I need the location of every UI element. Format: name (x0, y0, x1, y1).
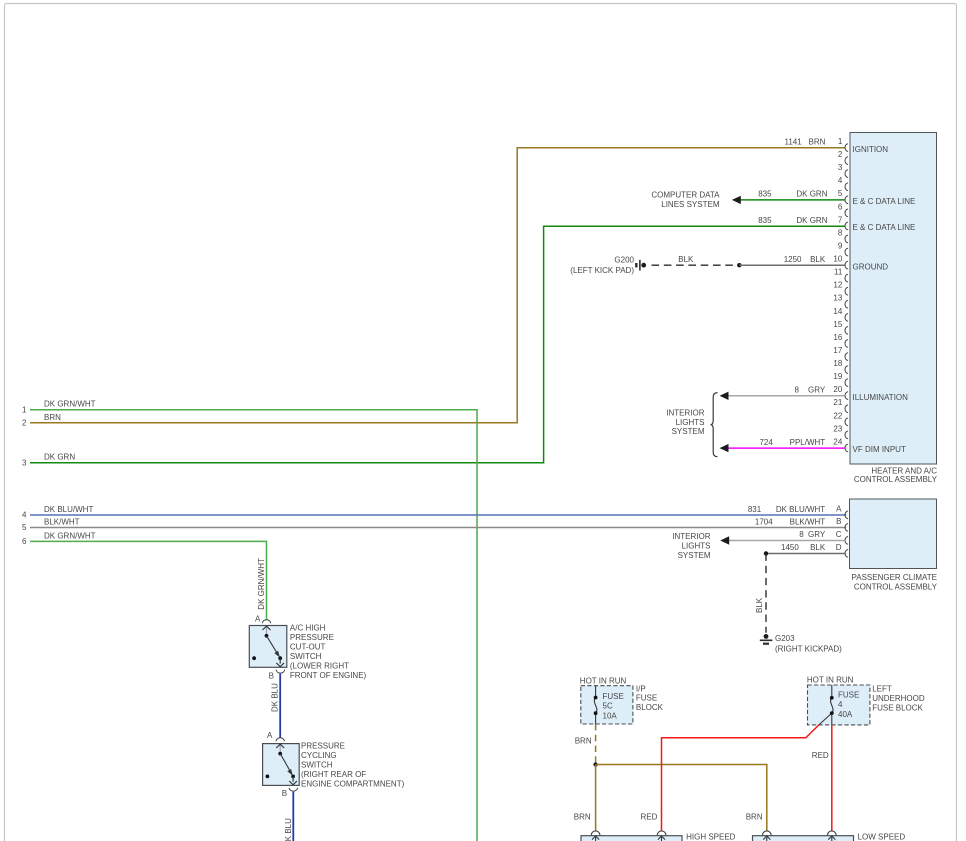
svg-text:CUT-OUT: CUT-OUT (290, 643, 326, 652)
svg-text:FUSE: FUSE (838, 690, 859, 699)
svg-text:SWITCH: SWITCH (290, 652, 322, 661)
svg-text:LEFT: LEFT (872, 685, 892, 694)
contact dots (265, 634, 269, 638)
wire 1704 BLK/WHT : left stub 5 to U2 pin B (30, 527, 846, 529)
down arrow to pin B (279, 658, 281, 663)
wire 724 PPL/WHT : U1 pin 24 to interior lights arrow (727, 447, 845, 449)
svg-text:I/P: I/P (636, 684, 646, 693)
wire 1141 BRN : left stub 2 to U1 pin 1 (30, 148, 845, 423)
connector U1 HEATER AND A/C CONTROL ASSEMBLY box (850, 133, 938, 484)
svg-text:LIGHTS: LIGHTS (682, 542, 711, 551)
svg-text:RED: RED (812, 751, 829, 760)
svg-text:PPL/WHT: PPL/WHT (790, 438, 826, 447)
wire RED : fuse F2 to HIGH SPEED relay (662, 725, 819, 831)
svg-text:11: 11 (834, 268, 843, 277)
svg-text:PRESSURE: PRESSURE (290, 633, 334, 642)
svg-text:INTERIOR: INTERIOR (672, 532, 710, 541)
svg-text:A: A (836, 504, 842, 513)
svg-text:831: 831 (748, 505, 762, 514)
up arrow (266, 627, 268, 636)
wire BLK dashed : junction down to G203 (765, 554, 767, 633)
down arrow to pin B (292, 776, 294, 781)
svg-text:8: 8 (799, 530, 804, 539)
svg-text:FUSE BLOCK: FUSE BLOCK (872, 703, 923, 712)
svg-text:BLK: BLK (810, 543, 826, 552)
svg-text:BLK: BLK (810, 255, 826, 264)
junction dot BRN (593, 762, 597, 766)
pin A arc (276, 738, 284, 742)
svg-text:HOT IN RUN: HOT IN RUN (580, 676, 627, 685)
svg-text:7: 7 (838, 215, 843, 224)
svg-text:3: 3 (838, 163, 843, 172)
svg-text:8: 8 (794, 386, 799, 395)
svg-text:ENGINE COMPARTMNENT): ENGINE COMPARTMNENT) (301, 780, 405, 789)
svg-text:40A: 40A (838, 710, 853, 719)
svg-text:GRY: GRY (808, 386, 826, 395)
svg-text:BRN: BRN (575, 736, 592, 745)
movable contact diagonal with arrowhead (267, 636, 279, 656)
svg-text:(RIGHT KICKPAD): (RIGHT KICKPAD) (775, 645, 842, 654)
svg-text:15: 15 (833, 320, 842, 329)
svg-text:BLK: BLK (678, 255, 694, 264)
svg-text:IGNITION: IGNITION (853, 145, 889, 154)
svg-text:HIGH SPEED: HIGH SPEED (686, 833, 736, 841)
svg-text:INTERIOR: INTERIOR (666, 408, 704, 417)
svg-text:1141: 1141 (784, 137, 802, 146)
svg-text:RED: RED (641, 813, 658, 822)
svg-text:9: 9 (838, 242, 843, 251)
svg-text:1: 1 (22, 405, 27, 414)
svg-text:5: 5 (22, 523, 27, 532)
svg-text:5: 5 (838, 189, 843, 198)
ground G203 symbol (760, 634, 773, 644)
svg-text:DK GRN: DK GRN (44, 453, 75, 462)
svg-text:BRN: BRN (809, 137, 826, 146)
svg-text:CONTROL ASSEMBLY: CONTROL ASSEMBLY (854, 475, 938, 484)
wire 835 DK GRN : U1 pin 5 to computer data lines arrow (740, 199, 845, 201)
svg-text:DK BLU: DK BLU (284, 818, 293, 841)
svg-text:18: 18 (833, 359, 842, 368)
wire BLK dashed : G200 to junction (647, 264, 739, 266)
svg-text:GRY: GRY (808, 530, 826, 539)
svg-text:3: 3 (22, 458, 27, 467)
svg-text:D: D (836, 543, 842, 552)
svg-text:SYSTEM: SYSTEM (678, 551, 711, 560)
svg-text:5C: 5C (603, 702, 613, 711)
svg-text:VF DIM INPUT: VF DIM INPUT (853, 445, 906, 454)
svg-text:COMPUTER DATA: COMPUTER DATA (651, 190, 720, 199)
svg-text:BLK/WHT: BLK/WHT (790, 517, 826, 526)
svg-text:DK GRN: DK GRN (796, 190, 827, 199)
svg-text:B: B (282, 789, 287, 798)
junction dot on pin 10 wire (737, 263, 741, 267)
connector U2 PASSENGER CLIMATE CONTROL ASSEMBLY box (850, 499, 938, 591)
ground G200 symbol (636, 260, 646, 271)
pin B arc (289, 788, 297, 792)
svg-text:B: B (836, 517, 841, 526)
svg-text:BLK/WHT: BLK/WHT (44, 517, 80, 526)
wire RED : fuse F2 to LOW SPEED relay (831, 725, 833, 831)
svg-text:GROUND: GROUND (853, 262, 889, 271)
U1 pin arcs 1-24 (845, 144, 848, 452)
svg-text:14: 14 (833, 307, 842, 316)
svg-text:10A: 10A (603, 712, 618, 721)
pin B arc (276, 670, 284, 674)
wire BRN : junction to LOW SPEED relay (596, 765, 767, 831)
svg-text:SWITCH: SWITCH (301, 761, 333, 770)
svg-text:24: 24 (833, 437, 842, 446)
relay K2 LOW SPEED box (753, 831, 906, 841)
svg-text:10: 10 (833, 255, 842, 264)
wire 831 DK BLU/WHT : left stub 4 to U2 pin A (30, 514, 846, 516)
svg-text:FUSE: FUSE (603, 692, 624, 701)
svg-text:835: 835 (758, 190, 772, 199)
svg-text:FRONT OF ENGINE): FRONT OF ENGINE) (290, 671, 367, 680)
svg-text:23: 23 (833, 424, 842, 433)
svg-text:BRN: BRN (746, 813, 763, 822)
up arrow (279, 745, 281, 754)
svg-text:835: 835 (758, 216, 772, 225)
svg-text:DK BLU/WHT: DK BLU/WHT (776, 505, 825, 514)
svg-text:19: 19 (833, 372, 842, 381)
wire DK BLU : S2 pin B down page (292, 792, 294, 841)
wire DK GRN/WHT : left stub 1 down page (30, 410, 477, 841)
svg-text:FUSE: FUSE (636, 694, 657, 703)
contact dots (278, 752, 282, 756)
movable contact diagonal with arrowhead (280, 754, 291, 774)
svg-text:CONTROL ASSEMBLY: CONTROL ASSEMBLY (854, 582, 938, 591)
svg-text:B: B (269, 671, 274, 680)
wire 1450 BLK : junction to U2 pin D (766, 553, 846, 555)
svg-text:2: 2 (838, 150, 843, 159)
svg-text:(LEFT KICK PAD): (LEFT KICK PAD) (570, 266, 634, 275)
svg-text:1450: 1450 (781, 543, 799, 552)
fuse F2 4 40A (831, 685, 833, 698)
svg-text:8: 8 (838, 228, 843, 237)
fuse block F1 I/P FUSE BLOCK (HOT IN RUN) (580, 676, 664, 724)
svg-text:LIGHTS: LIGHTS (676, 418, 705, 427)
svg-text:20: 20 (833, 385, 842, 394)
svg-text:A: A (255, 615, 261, 624)
svg-text:C: C (836, 530, 842, 539)
wire 1250 BLK : junction to U1 pin 10 (739, 264, 845, 266)
svg-text:DK GRN/WHT: DK GRN/WHT (44, 400, 96, 409)
svg-text:2: 2 (22, 418, 27, 427)
fuse F1 5C 10A (595, 686, 597, 698)
wire 8 GRY : U2 pin C to interior lights arrow (728, 540, 846, 542)
svg-text:DK GRN/WHT: DK GRN/WHT (44, 531, 96, 540)
wire BRN dashed : fuse F1 to junction (595, 724, 597, 762)
U2 pin arcs A-D (845, 511, 848, 557)
fuse block F2 LEFT UNDERHOOD FUSE BLOCK (HOT IN RUN) (807, 676, 925, 725)
svg-text:13: 13 (833, 294, 842, 303)
brace INTERIOR LIGHTS SYSTEM (pins 20-24) (711, 393, 718, 457)
svg-text:BLK: BLK (755, 597, 764, 613)
svg-text:PRESSURE: PRESSURE (301, 742, 345, 751)
svg-text:1: 1 (838, 137, 843, 146)
svg-text:G200: G200 (614, 255, 634, 264)
pin A arc (262, 620, 270, 624)
svg-text:SYSTEM: SYSTEM (672, 427, 705, 436)
arrow to computer data lines system (732, 196, 741, 204)
svg-text:BRN: BRN (44, 413, 61, 422)
U1 pin numbers (833, 137, 842, 446)
svg-text:16: 16 (833, 333, 842, 342)
svg-text:4: 4 (838, 176, 843, 185)
svg-text:22: 22 (833, 411, 842, 420)
svg-text:ILLUMINATION: ILLUMINATION (853, 393, 909, 402)
switch S2 PRESSURE CYCLING SWITCH (263, 731, 405, 798)
svg-text:LINES SYSTEM: LINES SYSTEM (661, 200, 720, 209)
svg-text:(LOWER RIGHT: (LOWER RIGHT (290, 661, 349, 670)
svg-text:A: A (267, 731, 273, 740)
wire 835 DK GRN : left stub 3 to U1 pin 7 (30, 226, 845, 462)
svg-text:17: 17 (833, 346, 842, 355)
svg-text:BLOCK: BLOCK (636, 703, 664, 712)
wire 8 GRY : U1 pin 20 to interior lights arrow (727, 395, 845, 397)
svg-text:DK BLU/WHT: DK BLU/WHT (44, 505, 93, 514)
svg-text:HOT IN RUN: HOT IN RUN (807, 676, 854, 685)
svg-text:4: 4 (22, 511, 27, 520)
svg-text:A/C HIGH: A/C HIGH (290, 624, 326, 633)
svg-text:PASSENGER CLIMATE: PASSENGER CLIMATE (852, 573, 938, 582)
relay K1 HIGH SPEED box (581, 831, 736, 841)
svg-text:DK GRN: DK GRN (796, 216, 827, 225)
svg-text:724: 724 (759, 438, 773, 447)
switch S1 A/C HIGH PRESSURE CUT-OUT SWITCH (249, 615, 366, 681)
svg-text:1704: 1704 (755, 517, 773, 526)
svg-text:DK GRN/WHT: DK GRN/WHT (257, 558, 266, 610)
svg-text:4: 4 (838, 700, 843, 709)
svg-text:UNDERHOOD: UNDERHOOD (872, 694, 925, 703)
svg-text:G203: G203 (775, 634, 795, 643)
junction dot on pin D wire (764, 551, 768, 555)
svg-text:21: 21 (833, 398, 842, 407)
svg-text:E & C DATA LINE: E & C DATA LINE (853, 223, 916, 232)
svg-text:BRN: BRN (574, 813, 591, 822)
svg-text:E & C DATA LINE: E & C DATA LINE (853, 197, 916, 206)
wire DK GRN/WHT : left stub 6 to pressure switch S1 pin A (30, 541, 267, 620)
svg-text:1250: 1250 (784, 255, 802, 264)
wire DK BLU : S1 pin B to S2 pin A (279, 674, 281, 738)
svg-text:CYCLING: CYCLING (301, 751, 337, 760)
svg-text:6: 6 (22, 537, 27, 546)
svg-text:LOW SPEED: LOW SPEED (858, 833, 906, 841)
svg-text:6: 6 (838, 202, 843, 211)
svg-text:12: 12 (833, 281, 842, 290)
wire BRN : junction to HIGH SPEED relay (595, 765, 597, 831)
svg-text:DK BLU: DK BLU (271, 683, 280, 712)
svg-text:(RIGHT REAR OF: (RIGHT REAR OF (301, 770, 366, 779)
